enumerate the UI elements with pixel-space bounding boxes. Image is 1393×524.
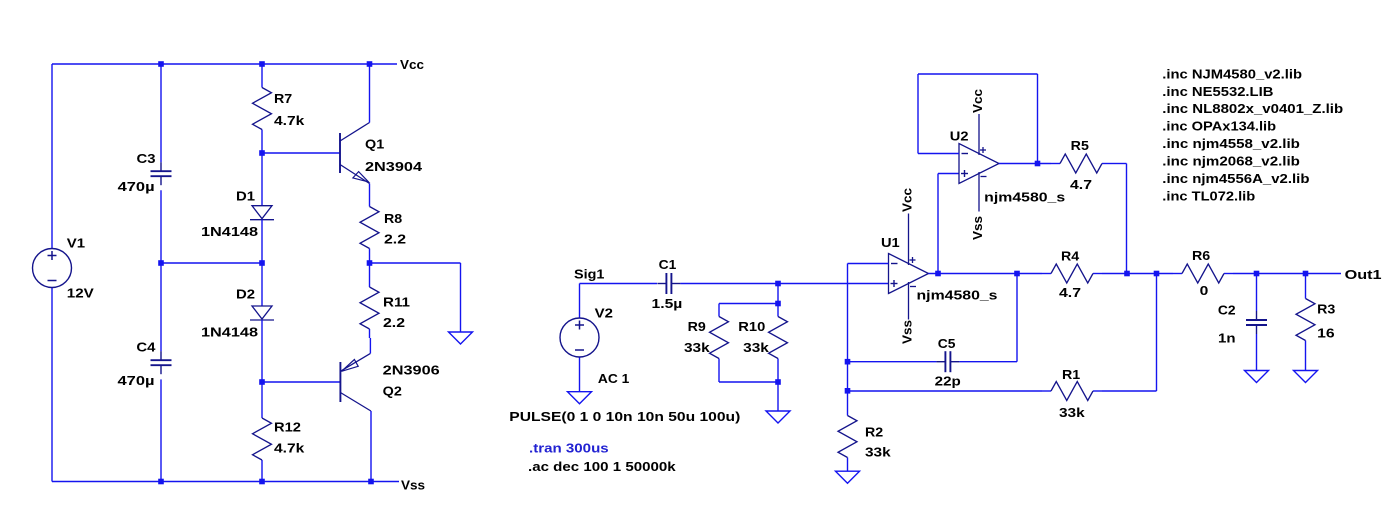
svg-text:R7: R7 [274, 91, 292, 106]
svg-text:AC 1: AC 1 [598, 371, 629, 386]
svg-text:1N4148: 1N4148 [201, 224, 258, 239]
svg-text:R10: R10 [738, 319, 765, 334]
svg-text:.inc njm4558_v2.lib: .inc njm4558_v2.lib [1162, 136, 1300, 151]
svg-text:Vcc: Vcc [970, 89, 985, 113]
svg-text:.inc TL072.lib: .inc TL072.lib [1162, 188, 1255, 203]
svg-text:PULSE(0 1 0 10n 10n 50u 100u): PULSE(0 1 0 10n 10n 50u 100u) [509, 409, 740, 424]
svg-text:.inc NJM4580_v2.lib: .inc NJM4580_v2.lib [1162, 66, 1302, 81]
svg-text:C4: C4 [136, 339, 156, 354]
svg-text:33k: 33k [1059, 405, 1086, 420]
svg-text:.inc njm2068_v2.lib: .inc njm2068_v2.lib [1162, 154, 1300, 169]
svg-text:D1: D1 [236, 189, 255, 204]
svg-text:D2: D2 [236, 287, 255, 302]
svg-text:Vss: Vss [900, 320, 915, 344]
svg-text:.ac dec 100 1 50000k: .ac dec 100 1 50000k [528, 459, 677, 474]
svg-text:22p: 22p [935, 374, 961, 389]
svg-text:njm4580_s: njm4580_s [917, 288, 998, 303]
svg-text:R3: R3 [1317, 302, 1335, 317]
svg-text:.inc njm4556A_v2.lib: .inc njm4556A_v2.lib [1162, 171, 1309, 186]
svg-text:1n: 1n [1218, 331, 1236, 346]
svg-text:1N4148: 1N4148 [201, 324, 258, 339]
svg-text:4.7: 4.7 [1059, 285, 1081, 300]
svg-text:Out1: Out1 [1345, 267, 1382, 282]
svg-text:2.2: 2.2 [383, 315, 405, 330]
svg-text:Q1: Q1 [365, 136, 384, 151]
svg-text:njm4580_s: njm4580_s [984, 190, 1065, 205]
svg-text:Vss: Vss [401, 478, 425, 493]
svg-text:Vcc: Vcc [900, 188, 915, 212]
svg-text:R11: R11 [383, 295, 410, 310]
svg-text:Vss: Vss [970, 216, 985, 240]
svg-text:R1: R1 [1062, 367, 1080, 382]
svg-text:Sig1: Sig1 [574, 266, 604, 281]
svg-text:U1: U1 [881, 235, 900, 250]
svg-text:.tran 300us: .tran 300us [529, 440, 609, 455]
svg-text:C3: C3 [137, 151, 156, 166]
svg-text:33k: 33k [684, 340, 711, 355]
svg-text:2N3906: 2N3906 [383, 362, 440, 377]
svg-text:4.7k: 4.7k [274, 441, 305, 456]
svg-text:470µ: 470µ [118, 179, 155, 194]
svg-text:.inc NE5532.LIB: .inc NE5532.LIB [1162, 84, 1273, 99]
svg-text:R4: R4 [1061, 249, 1080, 264]
svg-text:1.5µ: 1.5µ [652, 296, 683, 311]
svg-text:470µ: 470µ [118, 373, 155, 388]
svg-text:Vcc: Vcc [400, 57, 424, 72]
svg-text:C1: C1 [659, 257, 677, 272]
svg-text:33k: 33k [743, 340, 770, 355]
svg-text:V1: V1 [67, 236, 85, 251]
svg-text:4.7: 4.7 [1070, 177, 1092, 192]
svg-text:16: 16 [1317, 326, 1335, 341]
svg-text:R9: R9 [688, 319, 706, 334]
svg-text:33k: 33k [865, 445, 892, 460]
svg-text:R2: R2 [865, 425, 883, 440]
svg-text:U2: U2 [950, 129, 969, 144]
svg-text:R5: R5 [1071, 138, 1089, 153]
svg-text:V2: V2 [595, 305, 613, 320]
svg-text:C5: C5 [938, 336, 956, 351]
svg-text:R6: R6 [1192, 248, 1210, 263]
svg-text:4.7k: 4.7k [274, 113, 305, 128]
svg-text:Q2: Q2 [383, 383, 402, 398]
svg-text:12V: 12V [67, 285, 94, 300]
svg-text:2.2: 2.2 [384, 231, 406, 246]
svg-text:0: 0 [1200, 283, 1209, 298]
svg-text:R12: R12 [274, 420, 301, 435]
svg-text:2N3904: 2N3904 [365, 159, 423, 174]
svg-text:.inc NL8802x_v0401_Z.lib: .inc NL8802x_v0401_Z.lib [1162, 101, 1343, 116]
svg-text:C2: C2 [1218, 303, 1236, 318]
svg-text:R8: R8 [384, 211, 402, 226]
svg-text:.inc OPAx134.lib: .inc OPAx134.lib [1162, 119, 1276, 134]
